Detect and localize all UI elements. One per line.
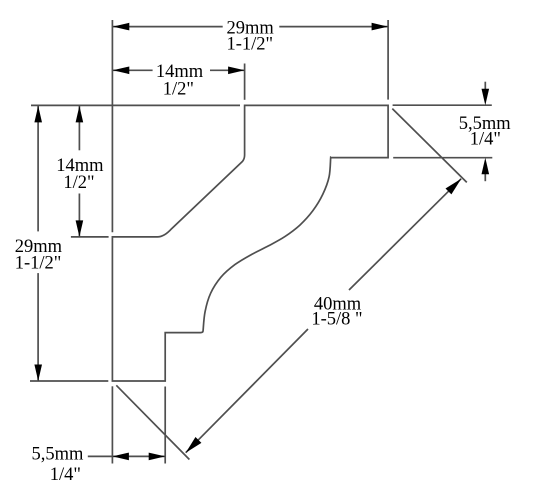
extension line x164 bottom [164,387,166,464]
dimension line 29mm left lower segment [37,273,39,381]
svg-text:1/2": 1/2" [163,79,194,99]
ceiling extension line right [393,104,492,106]
arrowhead 14mm top left [113,67,130,75]
arrowhead 40mm top [446,179,462,195]
dimension line 14mm left lower segment [78,194,80,237]
arrowhead 5.5mm bottom left [112,453,128,461]
arrowhead 40mm bottom [186,437,202,453]
extension line x244 top [244,64,246,100]
dimension line 5.5mm bottom with leader [88,455,165,457]
arrowhead 29mm top left [113,23,130,31]
dimension arrow 5.5mm right upper [484,82,486,91]
arrowhead 5.5mm bottom right [149,453,166,461]
ceiling extension line left [31,104,240,106]
svg-text:1-1/2": 1-1/2" [226,35,273,55]
svg-text:1/2": 1/2" [63,173,94,193]
dimension line 40mm lower segment [186,329,308,453]
arrowhead 14mm left top [76,106,84,123]
arrowhead 14mm top right [228,67,245,75]
dimension line 14mm top right segment [210,69,245,71]
svg-text:5,5mm: 5,5mm [31,444,84,464]
extension line y157 right [393,157,492,159]
arrowhead 29mm left bottom [34,365,42,382]
dimension line 14mm top left segment [113,69,153,71]
dimension line 29mm left upper segment [37,106,39,231]
svg-text:1/4": 1/4" [470,129,501,149]
svg-text:1-1/2": 1-1/2" [15,254,62,274]
dimension arrow 5.5mm right lower [484,172,486,181]
wall extension line x112 lower [111,386,113,463]
dimension line 40mm upper segment [349,179,461,290]
40mm diagonal extension line bottom [116,385,189,459]
arrowhead 29mm left top [34,106,42,123]
extension line x388 top [387,20,389,100]
dimension line 29mm top right segment [279,26,388,28]
40mm diagonal extension line top [392,109,467,183]
dimension line 14mm left upper segment [78,106,80,150]
dimension line 29mm top left segment [113,26,223,28]
extension line y236 left [71,236,109,238]
arrowhead 29mm top right [372,23,389,31]
molding profile outline [112,105,388,381]
svg-text:1/4": 1/4" [50,465,81,485]
wall extension line x112 upper [111,20,113,232]
bottom face extension line left [30,380,108,382]
arrowhead 14mm left bottom [76,220,84,237]
svg-text:1-5/8 ": 1-5/8 " [311,310,362,330]
